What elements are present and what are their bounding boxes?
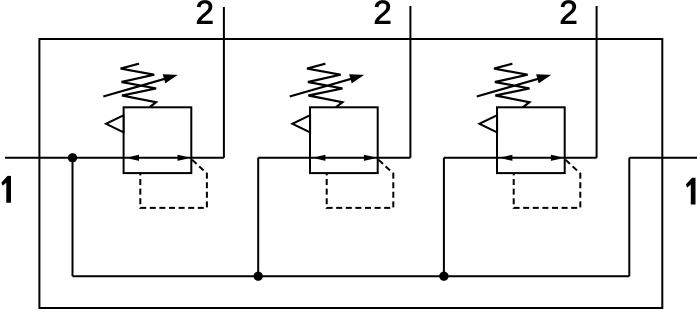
regulator 2: [290, 64, 394, 208]
wire: port 2 riser of regulator 2: [409, 6, 411, 158]
flow arrow right: [178, 155, 192, 161]
wire: port 1 outlet line (right): [629, 157, 697, 159]
wire: port 2 riser of regulator 3: [596, 6, 598, 158]
junction node on inlet line: [68, 153, 77, 162]
wire: feed line regulator 3: [444, 157, 597, 159]
regulator body: [124, 107, 192, 173]
junction node bus/regulator 2: [254, 272, 263, 281]
wire: port 2 riser of regulator 1: [223, 7, 225, 158]
relief vent triangle: [106, 115, 124, 132]
wire: down leg at inlet junction: [72, 158, 74, 276]
junction node bus/regulator 3: [439, 272, 448, 281]
regulator 3: [477, 64, 581, 208]
adjustment spring: [121, 64, 157, 108]
label 2 (regulator 3): [561, 1, 576, 24]
adjustment arrow head: [163, 74, 178, 83]
wire: down leg feeding regulator 2: [257, 158, 259, 276]
wire: bottom supply bus: [73, 275, 630, 277]
wire: up leg to outlet line: [628, 158, 630, 276]
regulator 1: [103, 64, 207, 208]
label 1 (right port): [686, 178, 696, 205]
wire: down leg feeding regulator 3: [443, 158, 445, 276]
adjustment arrow shaft: [103, 77, 170, 96]
label 1 (left port): [1, 176, 11, 203]
wire: port 1 inlet line (left): [5, 157, 224, 159]
label 2 (regulator 2): [375, 1, 390, 24]
pilot feedback dashed line: [140, 160, 207, 208]
enclosure frame: [39, 39, 662, 308]
flow arrow left: [126, 155, 139, 161]
label 2 (regulator 1): [197, 1, 212, 24]
wire: feed line regulator 2: [258, 157, 410, 159]
